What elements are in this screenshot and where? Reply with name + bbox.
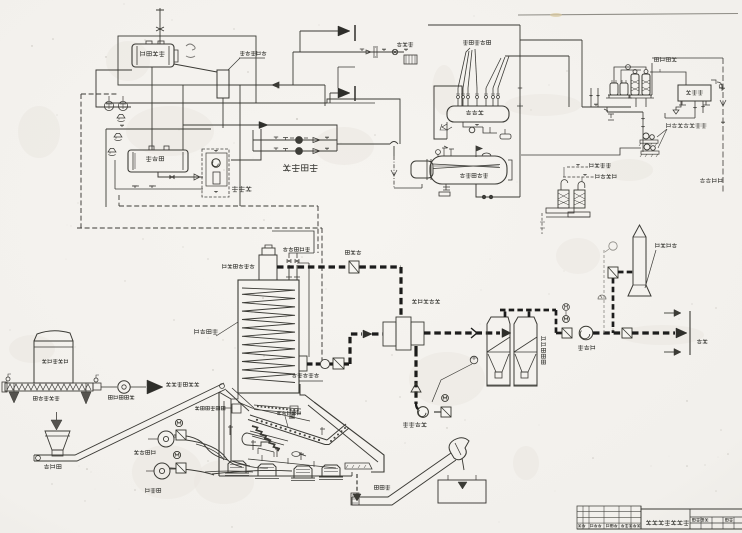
blower label [146, 488, 161, 493]
stoker machine body [242, 433, 269, 446]
thermal oil furnace tower [238, 280, 299, 393]
under-grate line [248, 459, 336, 468]
heating coil [242, 288, 295, 383]
title block left table [577, 506, 641, 529]
furnace bottom [219, 475, 352, 477]
blower damper [176, 463, 186, 473]
oil outlet pipes [289, 265, 297, 280]
inlet damper [333, 358, 344, 369]
duct sensor [470, 356, 478, 364]
rear wall inner [231, 393, 238, 399]
slag conveyor [352, 453, 451, 497]
powder nozzle [147, 380, 163, 394]
duct oval [292, 452, 300, 457]
discharge small arrows [664, 312, 674, 314]
generator flag instrument [476, 146, 482, 157]
instrument dashed line [603, 250, 605, 333]
wire vertical x183 [182, 85, 184, 150]
generator level gauge [508, 160, 512, 180]
header blowdown [463, 122, 483, 127]
production water label right [700, 178, 722, 183]
feed pump leaders [657, 129, 667, 137]
wire y129 injection frame top [106, 128, 211, 130]
slag conveyor head [449, 438, 469, 460]
inlet duct dashed thick [307, 362, 320, 365]
oil return dashdot [393, 156, 395, 188]
discharge label [697, 339, 707, 344]
production water right line [652, 57, 723, 59]
bypass duct to chimney [618, 271, 633, 274]
grate holes [256, 419, 258, 421]
left instrument hats [117, 114, 125, 121]
emergency vent stack [259, 255, 277, 280]
damper louver [349, 261, 359, 273]
circulation pump 1 [296, 137, 303, 144]
scan top edge line [518, 14, 738, 16]
expansion tank [132, 44, 174, 67]
generator tubes [433, 164, 500, 168]
mixing chamber label [412, 299, 440, 304]
primary fan duct [414, 350, 417, 404]
ID fan label [578, 345, 595, 350]
generator label [460, 173, 488, 178]
expansion tank label [141, 51, 165, 56]
steam generator shell [430, 156, 507, 184]
furnace label [195, 329, 218, 334]
pump line 2 [253, 150, 337, 152]
heat user label [397, 42, 413, 47]
steam line to right y56 [505, 55, 569, 57]
generator top fittings [436, 150, 441, 155]
furnace top right of tower [300, 384, 314, 402]
furnace right slant [314, 402, 384, 472]
pipe separator right [229, 84, 256, 86]
emergency vent label [223, 264, 255, 269]
screw feeder label [33, 396, 59, 401]
mixing chamber [383, 322, 396, 346]
scan mottling [409, 352, 485, 406]
pipe pump to manifold [231, 129, 261, 160]
grate band upper [250, 415, 327, 440]
feeder conveyor [34, 383, 224, 455]
duct to discharge [632, 331, 675, 334]
feed pump label [667, 123, 707, 128]
sampling drain [541, 213, 543, 234]
slag drop dashed [356, 474, 358, 494]
pipe separator down [222, 98, 224, 128]
oil outlet label [283, 247, 310, 252]
injection pump [212, 159, 220, 167]
pump line 1 [253, 139, 337, 141]
tank right fitting [174, 50, 178, 62]
powder silo [34, 331, 73, 341]
riser fan left [458, 48, 470, 88]
burner duct band [254, 405, 301, 409]
valves under tank [115, 188, 203, 190]
feed hopper [45, 431, 70, 450]
wire vertical tank drop [151, 67, 153, 150]
feed nozzle boxes [290, 406, 298, 411]
scan speckles [474, 16, 475, 17]
wire vertical x240 [239, 85, 241, 206]
tall riser x520 [519, 25, 521, 197]
short stub [338, 67, 355, 88]
wire long horizontal y103 [106, 102, 327, 104]
furnace left wall [218, 392, 220, 476]
dashed left riser [80, 94, 82, 228]
left instrument circles [104, 101, 113, 110]
hydraulic pusher box [232, 404, 241, 413]
secondary fan damper [176, 430, 186, 440]
steam line y40 [520, 39, 582, 41]
tower right standpipe [308, 263, 310, 357]
storage tank [128, 150, 188, 172]
storage tank label [146, 156, 164, 161]
oil inlet label [292, 373, 319, 378]
outlet manifold [272, 231, 314, 253]
generator dome [482, 153, 491, 156]
top line y25 [428, 24, 520, 26]
supply arrow 1 [338, 26, 350, 36]
drain symbols [604, 109, 614, 120]
softener top piping [614, 67, 646, 83]
sampling labels [590, 163, 611, 168]
screw feeder bearings [6, 377, 10, 381]
furnace arch lines [238, 402, 310, 421]
soft tank float fitting [711, 80, 723, 91]
furnace internal posts [228, 425, 304, 460]
riser fan right [486, 58, 501, 88]
air plenums [228, 461, 246, 473]
duct fan to outlet [593, 331, 621, 334]
supply arrow 2 [338, 88, 350, 98]
title text [646, 520, 689, 525]
left recirculation loop [96, 70, 132, 107]
feed discharge line [521, 148, 641, 155]
steam header label [466, 110, 483, 115]
fan suction stubs [148, 438, 158, 440]
fan inlet damper [562, 328, 572, 338]
slag conveyor label [374, 485, 390, 490]
feed pump 1 [643, 133, 649, 139]
pipe manifold to generator [337, 143, 390, 145]
generator blowdown to right [476, 184, 520, 197]
injection pump frame [202, 149, 229, 197]
induced draft fan [579, 326, 593, 340]
bypass duct riser [612, 278, 615, 333]
secondary fan label [134, 450, 155, 455]
feed hopper triangle [51, 420, 62, 430]
fan ducts curves [174, 435, 228, 460]
soft tank legs [679, 101, 710, 105]
feed pump suction [642, 112, 644, 152]
slag gate [345, 463, 372, 469]
header riser pipes [457, 99, 459, 106]
powder nozzle label [166, 382, 199, 387]
generator drain [443, 184, 450, 190]
line to soft tank [650, 72, 686, 85]
expansion tank vent pipe [156, 8, 164, 44]
oil inlet economizer box [299, 356, 307, 371]
softener columns [631, 74, 639, 95]
chimney ladder label [656, 243, 677, 248]
pipe feeder to fan [101, 386, 117, 388]
dashed drop to furnace inlet [321, 228, 323, 360]
injection pump label [232, 186, 251, 192]
wire x325 down [324, 85, 326, 106]
collector 2 [514, 317, 537, 386]
oil-gas separator leader [228, 58, 240, 70]
duct mixer to collectors [424, 331, 500, 334]
flue duct drop [399, 267, 402, 318]
sampling coolers [558, 190, 569, 208]
primary fan label [403, 422, 427, 427]
grate chute [226, 390, 249, 411]
feed chute label [277, 411, 301, 415]
powder fan label [108, 395, 134, 400]
dashed oil header upper [119, 205, 318, 207]
cooler coil risers [561, 180, 585, 190]
collector 1 [487, 317, 510, 386]
steam header vessel [447, 106, 509, 122]
title block right table [690, 516, 742, 518]
dashed oil header lower [77, 227, 322, 229]
grate steps [252, 426, 279, 451]
sampling lines [563, 176, 594, 178]
main circulation manifold [183, 125, 337, 151]
screw feeder trough [5, 383, 93, 391]
wire x293 up [292, 52, 294, 85]
grate support posts [258, 448, 274, 457]
silo label [42, 359, 68, 364]
dust collector label vertical [541, 336, 545, 364]
salt tanks [610, 83, 618, 95]
blower fan [154, 463, 170, 479]
feeder label [44, 464, 61, 469]
bypass damper [608, 267, 618, 278]
water block base lines [582, 106, 631, 108]
slag bin [438, 480, 486, 503]
hydraulic pusher label [195, 406, 225, 410]
collector top header duct [504, 310, 507, 317]
damper label [345, 250, 361, 255]
soft tank label [686, 90, 703, 95]
header left loop [434, 86, 462, 139]
injection pump dashed box [206, 153, 227, 186]
handwritten mark [186, 44, 195, 58]
primary fan damper [441, 407, 451, 417]
steam users label [463, 40, 491, 45]
flue duct top horizontal [277, 265, 401, 268]
soft water tank [678, 85, 711, 101]
column downcomers [635, 98, 637, 107]
rear grate band [327, 424, 346, 440]
title block signatures [578, 524, 585, 527]
soft tank drain [676, 101, 681, 110]
outlet damper [622, 328, 632, 338]
heat user line [293, 51, 404, 53]
soft tank outlets [694, 101, 696, 118]
chimney [628, 225, 651, 296]
powder fan [118, 381, 130, 393]
ID fan motor instruments [563, 304, 570, 311]
oil-gas separator label [240, 51, 266, 56]
duct riser to mixer [344, 362, 349, 365]
main circulation pump label [283, 164, 318, 172]
water make-up label [654, 57, 676, 62]
primary air fan [418, 407, 429, 418]
heat user radiator [404, 55, 417, 64]
screw feeder outlet arrows [9, 392, 19, 403]
generator left header [411, 161, 433, 178]
title block top line [641, 508, 742, 510]
frame around expansion tank [118, 36, 256, 85]
wire vertical x256 [255, 85, 257, 103]
storage tank outlet [158, 172, 203, 177]
feed pump 2 [644, 144, 650, 150]
circulation pump 2 [296, 148, 303, 155]
blower motor [173, 451, 180, 458]
dashed drop to furnace outlet [317, 206, 319, 253]
wire left inner frame [105, 129, 107, 207]
cooler bases [546, 208, 574, 213]
secondary fan motor [175, 419, 182, 426]
exchanger downcomers [590, 88, 592, 107]
discharge bar [689, 311, 691, 355]
wire y85 [256, 84, 325, 86]
diagonal pipe tank to separator [174, 64, 217, 72]
oil-gas separator [217, 70, 229, 98]
secondary fan [158, 431, 174, 447]
make-up riser [651, 63, 653, 95]
discharge arrow [676, 328, 687, 338]
